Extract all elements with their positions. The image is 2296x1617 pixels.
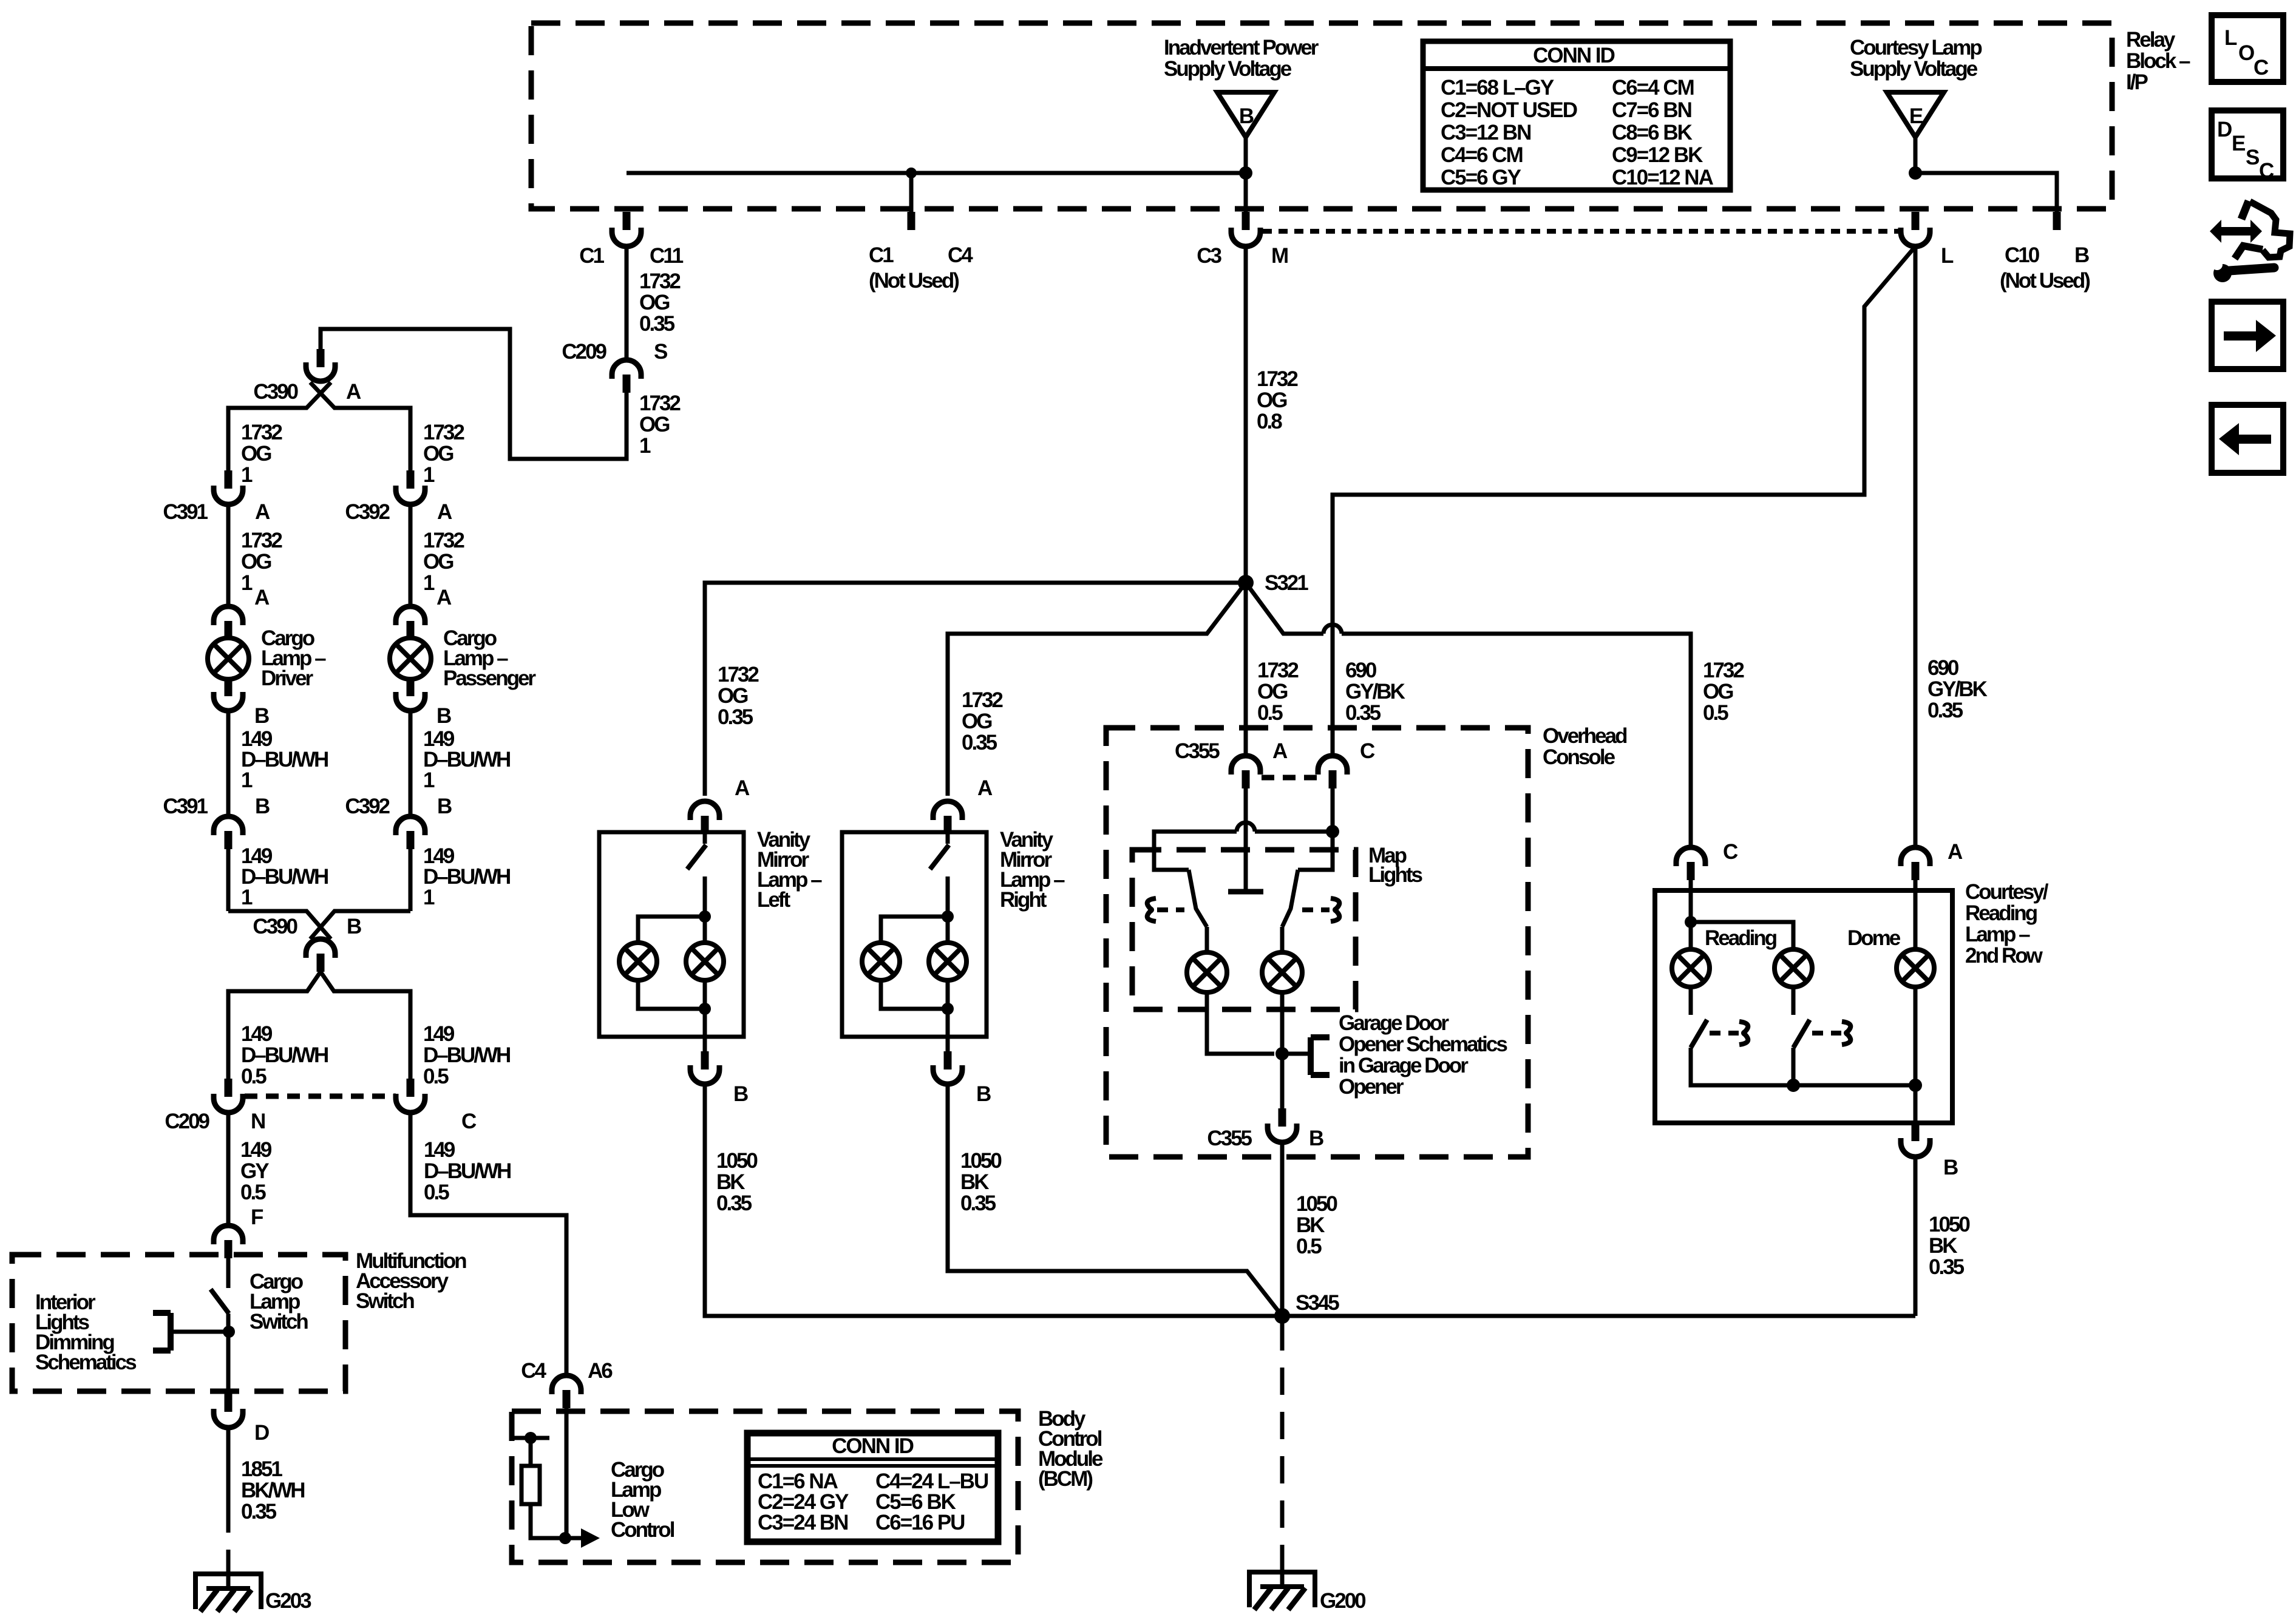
svg-text:B: B — [254, 704, 269, 728]
CONN ID table (relay block) — [1423, 41, 1730, 190]
svg-text:149: 149 — [241, 1022, 273, 1046]
splice C390-A X right leg — [310, 382, 410, 472]
connector vanity Left B arc — [690, 1065, 719, 1084]
svg-text:0.5: 0.5 — [424, 1181, 449, 1204]
wire dashed to G203 — [226, 1505, 231, 1560]
connector courtesy B pin — [1912, 1123, 1920, 1141]
connector C391-B pin — [225, 831, 233, 849]
reference bracket interior lights — [168, 1313, 174, 1351]
svg-text:G200: G200 — [1320, 1589, 1366, 1613]
resistor BCM driver — [521, 1466, 540, 1504]
svg-text:M: M — [1271, 244, 1288, 268]
map lamp left lower wire — [1207, 992, 1274, 1054]
svg-text:Switch: Switch — [356, 1289, 414, 1313]
svg-text:C392: C392 — [345, 500, 390, 524]
vanity Left lamp2 wire — [703, 917, 707, 943]
svg-text:0.5: 0.5 — [241, 1065, 267, 1088]
svg-text:S: S — [2246, 146, 2260, 169]
vanity Right switch blade — [930, 845, 949, 869]
wire S321 right diagonal — [1246, 583, 1323, 634]
wire triangle E stem — [1914, 137, 1918, 173]
svg-text:in Garage Door: in Garage Door — [1339, 1054, 1469, 1077]
svg-text:1732: 1732 — [1257, 659, 1299, 682]
lamp connector arc — [214, 606, 243, 625]
svg-text:1: 1 — [241, 886, 253, 909]
svg-text:1732: 1732 — [1257, 367, 1298, 391]
cargo lamp switch blade — [211, 1289, 229, 1314]
wire C209-N down to F — [226, 1113, 231, 1225]
svg-text:1: 1 — [423, 571, 435, 595]
svg-text:C391: C391 — [163, 795, 208, 818]
connector C391-A arc — [214, 486, 243, 504]
icon next-page arrow box — [2212, 302, 2283, 369]
wire switch1 to bus — [1691, 1048, 1915, 1085]
connector C4-A6 pin — [563, 1390, 571, 1408]
svg-text:S321: S321 — [1265, 571, 1308, 595]
svg-text:1: 1 — [423, 768, 435, 792]
arrow cargo lamp low control — [581, 1528, 600, 1548]
svg-text:E: E — [1909, 104, 1923, 128]
svg-text:C1=68 L–GY: C1=68 L–GY — [1441, 76, 1554, 100]
connector C209-S arc — [612, 360, 641, 379]
vanity Right lamp2 lower — [946, 980, 950, 1051]
map switch right link — [1302, 907, 1330, 912]
connector L arc — [1901, 228, 1930, 246]
svg-text:D–BU/WH: D–BU/WH — [423, 865, 510, 889]
connector C355-C pin — [1329, 770, 1337, 788]
connector courtesy A pin — [1912, 862, 1920, 880]
svg-text:Lamp –: Lamp – — [1965, 923, 2030, 946]
svg-text:1851: 1851 — [241, 1457, 282, 1481]
svg-text:149: 149 — [423, 1022, 455, 1046]
svg-text:C6=4 CM: C6=4 CM — [1612, 76, 1694, 100]
connector vanity Right B pin — [944, 1051, 952, 1070]
splice C390-B X left leg — [228, 911, 331, 939]
connector F arc — [214, 1225, 243, 1244]
wire resistor to output — [531, 1504, 581, 1538]
svg-text:690: 690 — [1927, 656, 1959, 680]
junction BCM feed — [525, 1432, 537, 1444]
pin C10 not used — [2053, 212, 2061, 230]
svg-text:2nd Row: 2nd Row — [1965, 944, 2043, 968]
map lamp left — [1187, 952, 1227, 992]
svg-text:0.35: 0.35 — [1929, 1255, 1965, 1279]
vanity Left lamp2 — [686, 943, 724, 980]
svg-text:C11: C11 — [650, 244, 684, 268]
svg-text:C: C — [2254, 56, 2269, 80]
connector group dashed link C209 — [245, 1094, 396, 1099]
svg-text:0.5: 0.5 — [423, 1065, 449, 1088]
svg-text:1: 1 — [423, 886, 435, 909]
svg-text:Reading: Reading — [1705, 926, 1777, 950]
svg-text:OG: OG — [1257, 388, 1287, 412]
vanity mirror lamp Right box — [842, 832, 987, 1037]
pin at L — [1912, 212, 1920, 230]
svg-text:1: 1 — [423, 463, 435, 487]
svg-text:BK/WH: BK/WH — [241, 1479, 304, 1502]
svg-text:C: C — [1360, 739, 1375, 763]
svg-text:0.8: 0.8 — [1257, 410, 1282, 433]
map lamp right — [1262, 952, 1302, 992]
junction rail/C wire — [1326, 825, 1339, 838]
svg-text:C7=6 BN: C7=6 BN — [1612, 98, 1691, 122]
svg-text:L: L — [2224, 26, 2237, 50]
connector C4-A6 arc — [552, 1375, 581, 1394]
svg-text:(Not Used): (Not Used) — [2000, 269, 2090, 293]
connector C355-A arc — [1231, 756, 1260, 775]
courtesy/reading lamp box — [1655, 890, 1952, 1123]
vanity Left lamp1 — [619, 943, 657, 980]
svg-text:149: 149 — [424, 1138, 455, 1162]
wire C4 into BCM — [565, 1408, 569, 1538]
svg-text:C3: C3 — [1197, 244, 1221, 268]
svg-text:D–BU/WH: D–BU/WH — [423, 748, 510, 771]
svg-text:C3=24 BN: C3=24 BN — [758, 1511, 847, 1534]
svg-text:0.35: 0.35 — [241, 1500, 277, 1524]
vanity Left lamp1 lower — [638, 980, 705, 1009]
lamp cargo passenger — [390, 638, 431, 679]
svg-text:O: O — [2238, 41, 2255, 65]
svg-text:BK: BK — [1929, 1234, 1957, 1258]
svg-text:Control: Control — [611, 1518, 674, 1542]
courtesy switch1 blade — [1691, 1020, 1707, 1048]
svg-text:OG: OG — [423, 550, 453, 574]
svg-text:C8=6 BK: C8=6 BK — [1612, 121, 1693, 144]
svg-text:C10=12 NA: C10=12 NA — [1612, 166, 1714, 189]
svg-text:Inadvertent Power: Inadvertent Power — [1164, 36, 1319, 59]
svg-text:Console: Console — [1543, 745, 1615, 769]
svg-text:C4: C4 — [948, 243, 973, 267]
svg-text:1732: 1732 — [639, 269, 681, 293]
connector C209-N arc — [214, 1094, 243, 1113]
svg-text:BK: BK — [1296, 1213, 1325, 1237]
connector C209-N pin — [225, 1079, 233, 1097]
svg-text:OG: OG — [241, 550, 271, 574]
svg-text:GY: GY — [240, 1159, 269, 1183]
svg-text:C1: C1 — [869, 243, 894, 267]
svg-text:Lights: Lights — [1368, 863, 1423, 887]
wire lamp1 to switch — [1689, 987, 1693, 1015]
svg-text:Schematics: Schematics — [35, 1351, 137, 1374]
svg-text:OG: OG — [639, 291, 670, 314]
svg-text:C391: C391 — [163, 500, 208, 524]
svg-text:A: A — [1948, 840, 1963, 864]
lamp connector arc — [396, 606, 425, 625]
cargo lamp switch wire bottom — [226, 1314, 231, 1394]
wire S321 to vanity left — [705, 583, 1246, 796]
svg-text:C390: C390 — [253, 915, 297, 938]
vanity mirror lamp Left box — [599, 832, 744, 1037]
wire C3 down to S321/C355-A — [1244, 246, 1248, 756]
lamp top pin — [407, 621, 415, 639]
connector C1 pin — [623, 212, 631, 230]
svg-text:Garage Door: Garage Door — [1339, 1011, 1449, 1035]
svg-text:OG: OG — [1703, 680, 1733, 703]
ground G200 — [1247, 1570, 1317, 1575]
splice C390-A X left leg — [228, 382, 331, 472]
lamp bottom arc — [214, 692, 243, 711]
courtesy switch2 blade — [1793, 1020, 1810, 1048]
relay block I/P dashed box — [531, 23, 2112, 209]
wire S345 bus — [1274, 1314, 1915, 1318]
connector C392-A arc — [396, 486, 425, 504]
connector vanity Left B pin — [701, 1051, 709, 1070]
svg-text:D–BU/WH: D–BU/WH — [424, 1159, 511, 1183]
svg-text:1050: 1050 — [960, 1149, 1002, 1173]
vanity Right junction top — [942, 910, 954, 923]
vanity Right lamp1 lower — [881, 980, 948, 1009]
svg-text:B: B — [437, 795, 452, 818]
svg-text:1050: 1050 — [1929, 1213, 1970, 1236]
connector courtesy C pin — [1687, 862, 1695, 880]
svg-text:Left: Left — [757, 888, 791, 912]
map rail right drop — [1298, 832, 1333, 870]
connector C392-B pin — [407, 831, 415, 849]
wire hop over C355-C wire — [1323, 625, 1342, 634]
vanity Left junction top — [699, 910, 711, 923]
wire S321 left diagonal — [948, 583, 1246, 796]
junction BCM output — [559, 1532, 571, 1544]
svg-text:(BCM): (BCM) — [1038, 1467, 1092, 1491]
lamp bottom pin — [225, 678, 233, 696]
svg-text:690: 690 — [1345, 659, 1377, 682]
BCM driver feed stub — [513, 1436, 549, 1440]
wire C209-C to BCM C4 — [410, 1113, 566, 1375]
wire E to C10 — [1915, 173, 2057, 212]
icon LOC box — [2212, 15, 2283, 82]
svg-text:CONN ID: CONN ID — [1533, 44, 1615, 67]
connector vanity Left A pin — [701, 816, 709, 834]
wire B conn down — [409, 849, 413, 911]
svg-text:0.5: 0.5 — [1703, 701, 1728, 725]
vanity Right switch lower wire — [946, 876, 950, 917]
connector group dashed link C355 — [1262, 775, 1317, 781]
BCM dashed box — [512, 1411, 1018, 1562]
svg-text:A: A — [346, 380, 361, 404]
svg-text:C: C — [2259, 159, 2274, 183]
svg-text:A: A — [437, 500, 452, 524]
svg-text:B: B — [347, 915, 361, 938]
svg-text:1: 1 — [241, 768, 253, 792]
lamp cargo driver — [208, 638, 249, 679]
junction map lamps — [1275, 1047, 1289, 1060]
icon prev-page arrow box — [2212, 405, 2283, 473]
svg-text:D–BU/WH: D–BU/WH — [241, 1043, 328, 1067]
svg-text:1732: 1732 — [718, 663, 759, 686]
svg-text:L: L — [1941, 244, 1954, 268]
svg-text:0.35: 0.35 — [1927, 699, 1963, 722]
vanity Left switch stub — [703, 834, 707, 844]
svg-text:OG: OG — [241, 442, 271, 466]
svg-text:Opener: Opener — [1339, 1075, 1404, 1099]
map switch left link — [1147, 898, 1156, 921]
dome lamp — [1897, 949, 1934, 987]
wire C355-B to S345 — [1280, 1142, 1285, 1316]
splice S345 — [1274, 1308, 1290, 1324]
vanity Left switch blade — [687, 845, 706, 869]
cargo lamp switch wire top — [226, 1258, 231, 1288]
splice C390-B lower legs — [228, 972, 321, 1079]
svg-text:B: B — [2074, 243, 2089, 267]
svg-text:C209: C209 — [562, 340, 606, 364]
map switch left lower wire — [1205, 927, 1209, 952]
wire courtesy C inside — [1689, 880, 1693, 922]
svg-text:Driver: Driver — [261, 666, 314, 690]
svg-text:Dome: Dome — [1847, 926, 1901, 950]
connector C3 arc — [1231, 228, 1260, 246]
svg-text:Overhead: Overhead — [1543, 724, 1627, 748]
svg-text:Passenger: Passenger — [443, 666, 536, 690]
svg-text:0.5: 0.5 — [1257, 701, 1283, 725]
svg-text:C390: C390 — [253, 380, 298, 404]
vanity Right switch stub — [946, 834, 950, 844]
svg-text:1050: 1050 — [1296, 1192, 1337, 1216]
supply voltage triangle E — [1887, 92, 1944, 137]
wire L straight down — [1914, 246, 1918, 847]
overhead console dashed box — [1106, 728, 1528, 1157]
vanity Left junction bottom — [699, 1003, 711, 1015]
svg-text:1732: 1732 — [962, 688, 1003, 712]
svg-text:Right: Right — [1000, 888, 1047, 912]
pin C1/C4 not used — [908, 212, 915, 230]
svg-text:D–BU/WH: D–BU/WH — [241, 748, 328, 771]
svg-text:F: F — [251, 1205, 263, 1229]
svg-text:BK: BK — [716, 1170, 745, 1194]
svg-text:OG: OG — [639, 413, 670, 436]
wire vanity left B to S345 — [705, 1084, 1274, 1316]
connector vanity Right A arc — [933, 801, 962, 820]
junction courtesy bus right — [1909, 1079, 1922, 1092]
svg-text:Opener Schematics: Opener Schematics — [1339, 1032, 1507, 1056]
svg-text:1732: 1732 — [241, 421, 282, 444]
wire dashed to G200 — [1280, 1323, 1285, 1545]
junction on bus — [906, 168, 917, 178]
svg-text:D: D — [2217, 118, 2232, 141]
wire C209-S to C390-A — [321, 329, 627, 459]
connector C391-B arc — [214, 816, 243, 835]
svg-text:0.5: 0.5 — [240, 1181, 266, 1204]
lamp bottom pin — [407, 678, 415, 696]
svg-text:Courtesy Lamp: Courtesy Lamp — [1850, 36, 1982, 59]
svg-text:B: B — [1309, 1127, 1323, 1150]
svg-text:A6: A6 — [588, 1359, 613, 1383]
svg-text:Reading: Reading — [1965, 901, 2037, 925]
svg-text:C392: C392 — [345, 795, 390, 818]
connector C355-C arc — [1318, 756, 1347, 775]
vanity Left switch lower wire — [703, 876, 707, 917]
garage door opener bracket — [1282, 1052, 1311, 1056]
map light common bar — [1228, 889, 1263, 895]
svg-text:B: B — [733, 1082, 748, 1106]
connector D arc — [214, 1409, 243, 1428]
multifunction accessory switch dashed box — [12, 1255, 345, 1391]
lamp top pin — [225, 621, 233, 639]
svg-text:D–BU/WH: D–BU/WH — [241, 865, 328, 889]
svg-text:GY/BK: GY/BK — [1927, 677, 1988, 701]
vanity Right lamp1 — [862, 943, 900, 980]
svg-text:0.35: 0.35 — [639, 312, 675, 336]
svg-text:I/P: I/P — [2126, 70, 2148, 94]
junction E — [1909, 166, 1922, 180]
wire lamp to B conn — [226, 711, 231, 816]
svg-text:1: 1 — [241, 463, 253, 487]
wire C355-A to common bar — [1244, 788, 1248, 892]
svg-text:OG: OG — [718, 684, 748, 708]
splice C390-A arc — [306, 362, 335, 381]
junction bus/B — [1239, 166, 1252, 180]
svg-text:149: 149 — [240, 1138, 272, 1162]
wire bracket to switch — [171, 1330, 229, 1334]
svg-text:C: C — [1723, 840, 1738, 864]
svg-text:Switch: Switch — [250, 1310, 308, 1334]
connector C355-B arc — [1268, 1124, 1297, 1142]
wire B conn down — [226, 849, 231, 911]
svg-text:A: A — [1272, 739, 1288, 763]
dotted connector line C3..L — [1263, 229, 1900, 234]
splice C390-A pin — [317, 349, 325, 367]
vanity Right lamp1 branch — [881, 917, 948, 943]
svg-text:1050: 1050 — [716, 1149, 758, 1173]
map switch right lower wire — [1280, 927, 1285, 952]
svg-text:B: B — [1943, 1156, 1958, 1179]
svg-text:D: D — [254, 1421, 269, 1445]
svg-text:A: A — [436, 586, 452, 609]
wire to reading lamp2 — [1691, 922, 1793, 949]
junction courtesy bus mid — [1787, 1079, 1800, 1092]
reading lamp 1 — [1672, 949, 1710, 987]
svg-text:C1: C1 — [579, 244, 604, 268]
wire D down — [226, 1428, 231, 1505]
svg-text:C: C — [461, 1110, 477, 1133]
connector C392-A pin — [407, 470, 415, 489]
svg-text:0.35: 0.35 — [962, 731, 997, 754]
wire switch2 drop — [1792, 1048, 1796, 1085]
svg-text:A: A — [254, 586, 270, 609]
svg-text:C355: C355 — [1175, 739, 1220, 763]
map lamp right lower wire — [1280, 992, 1285, 1108]
icon wrench double arrow — [2220, 227, 2250, 236]
wire dome lamp feed — [1914, 880, 1918, 949]
wire C391 to lamp — [226, 504, 231, 606]
svg-text:Supply Voltage: Supply Voltage — [1164, 57, 1292, 81]
svg-text:GY/BK: GY/BK — [1345, 680, 1405, 703]
svg-text:Supply Voltage: Supply Voltage — [1850, 57, 1978, 81]
vanity Left lamp2 lower — [703, 980, 707, 1051]
junction switch — [223, 1326, 235, 1338]
svg-text:S: S — [654, 340, 667, 364]
wire vanity right B to S345 — [948, 1084, 1282, 1316]
svg-text:CONN ID: CONN ID — [832, 1434, 914, 1458]
vanity Right junction bottom — [942, 1003, 954, 1015]
connector courtesy C arc — [1676, 847, 1705, 866]
svg-text:(Not Used): (Not Used) — [869, 269, 959, 293]
svg-text:S345: S345 — [1296, 1291, 1339, 1315]
svg-text:0.35: 0.35 — [716, 1192, 752, 1215]
svg-text:Courtesy/: Courtesy/ — [1965, 880, 2049, 904]
connector F pin — [225, 1240, 233, 1258]
map light rail right — [1255, 830, 1333, 834]
svg-text:B: B — [436, 704, 451, 728]
svg-text:C4: C4 — [521, 1359, 546, 1383]
svg-text:0.35: 0.35 — [1345, 701, 1381, 725]
connector C392-B arc — [396, 816, 425, 835]
wire to ground — [226, 1560, 231, 1590]
svg-text:C5=6 GY: C5=6 GY — [1441, 166, 1521, 189]
svg-text:0.5: 0.5 — [1296, 1235, 1322, 1258]
svg-text:1: 1 — [241, 571, 253, 595]
svg-text:D–BU/WH: D–BU/WH — [423, 1043, 510, 1067]
svg-text:1732: 1732 — [639, 392, 681, 415]
